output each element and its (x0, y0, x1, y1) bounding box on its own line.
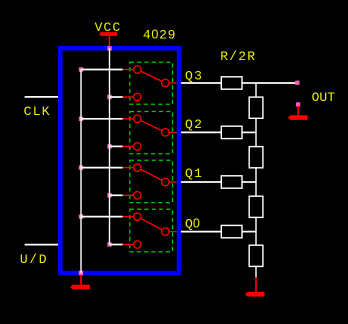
junction (bus B / VCC entry) (107, 46, 111, 51)
junction (bus B, S1 bottom) (107, 95, 111, 99)
wire Q1 output (181, 181, 221, 183)
switch S4 (Q0 stage) (123, 209, 179, 252)
resistor 2R (ladder vertical 1) (249, 97, 263, 118)
resistor R (Q3, horizontal) (221, 77, 242, 89)
wire: S2 bottom branch (110, 145, 124, 147)
wire: S3 bottom branch (110, 194, 124, 196)
svg-text:OUT: OUT (312, 90, 336, 105)
wire: S4 top branch (81, 216, 123, 218)
wire: S2 top branch (81, 118, 123, 120)
junction (bus B, S3 bottom) (107, 193, 111, 197)
resistor R (Q1, horizontal) (221, 176, 242, 188)
wire R Q2 to ladder (242, 131, 256, 133)
wire Q3 output (181, 82, 221, 84)
resistor 2R (ladder vertical 2) (249, 147, 263, 168)
svg-text:R/2R: R/2R (220, 49, 256, 64)
wire: vertical bus B (x=109.5, VCC to bottom switch inputs) (109, 46, 111, 245)
wire: S1 bottom branch (110, 96, 124, 98)
wire R Q1 to ladder (242, 181, 256, 183)
junction (bus A, S1 top) (79, 67, 83, 71)
svg-text:VCC: VCC (95, 20, 122, 35)
svg-text:CLK: CLK (24, 104, 51, 119)
svg-text:U/D: U/D (20, 252, 48, 267)
svg-text:Q2: Q2 (185, 117, 203, 132)
svg-text:Q0: Q0 (185, 216, 200, 231)
wire R Q0 to ladder (242, 231, 256, 233)
power VCC symbol (99, 32, 117, 46)
ground (ladder bottom) (245, 277, 265, 297)
wire OUT (Q3 row to port) (256, 82, 296, 84)
junction (bus A, ground exit) (79, 271, 83, 276)
wire U/D input (25, 244, 59, 246)
resistor R (Q0, horizontal) (221, 225, 242, 237)
junction (bus A, S2 top) (79, 117, 83, 121)
svg-text:4029: 4029 (143, 28, 176, 43)
ground (OUT reference flag) (288, 102, 308, 120)
wire R Q3 to ladder (242, 82, 256, 84)
wire: S1 top branch (81, 69, 123, 71)
svg-text:Q3: Q3 (185, 68, 203, 83)
wire Q0 output (181, 231, 221, 233)
wire: vertical bus A (x=81, top switch inputs to ground) (80, 70, 82, 276)
node OUT port (295, 81, 299, 85)
resistor 2R (ladder vertical 3) (249, 196, 263, 217)
junction (bus A, S4 top) (79, 214, 83, 218)
wire Q2 output (181, 131, 221, 133)
junction (bus B, S2 bottom) (107, 144, 111, 148)
junction (bus A, S3 top) (79, 165, 83, 169)
wire CLK input (25, 96, 59, 98)
ground (IC bottom, bus A) (70, 275, 90, 289)
resistor 2R (ladder vertical 4) (249, 245, 263, 266)
switch S3 (Q1 stage) (123, 160, 179, 202)
switch S2 (Q2 stage) (123, 112, 179, 154)
switch S1 (Q3 stage) (123, 62, 179, 104)
junction (bus B, S4 bottom / U-D row) (107, 242, 111, 246)
op IC body 4029 (blue outline box) (60, 48, 179, 273)
resistor R (Q2, horizontal) (221, 126, 242, 138)
wire ladder vertical (255, 83, 257, 278)
svg-text:Q1: Q1 (185, 166, 203, 181)
wire: S3 top branch (81, 167, 123, 169)
wire: S4 bottom branch (110, 244, 124, 246)
